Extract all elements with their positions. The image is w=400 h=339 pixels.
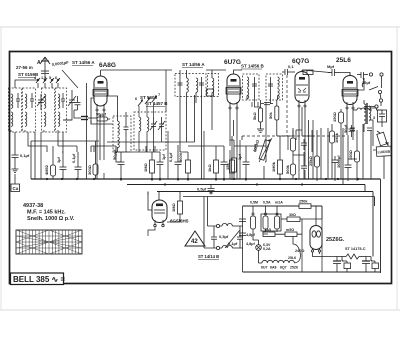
svg-text:240Ω: 240Ω (295, 249, 304, 253)
resistor small on osc feed (207, 89, 214, 96)
capacitor 1uf (screen) (243, 152, 250, 181)
svg-text:1MΩ: 1MΩ (171, 202, 176, 212)
wire terminals up to bus (204, 197, 208, 249)
ground under 0,1uf (12, 166, 19, 173)
resistor 0,5M (diode load) (278, 150, 283, 180)
svg-text:7: 7 (158, 93, 160, 97)
line filter choke bottom (220, 245, 240, 248)
wire 6G5 left leg (148, 192, 155, 237)
AVC dashed line (242, 135, 345, 137)
capacitor on bus3 0,5uf (208, 184, 215, 195)
capacitor 25L6 cathode bypass (345, 159, 352, 181)
padder coils (139, 117, 149, 131)
svg-text:6G5/6H5: 6G5/6H5 (170, 219, 189, 224)
wire 25Z6 plates to rail (316, 206, 322, 226)
cap small 10k upper (301, 139, 307, 150)
electrolytic cap E2 small box (342, 261, 351, 272)
wire Ca to cap (14, 174, 16, 184)
svg-text:6: 6 (55, 76, 57, 80)
wire volume top to IF (255, 102, 266, 152)
wires right mid region verticals (321, 124, 371, 185)
svg-text:0,1µf: 0,1µf (71, 153, 76, 163)
pilot lamp (256, 245, 262, 251)
svg-text:A: A (37, 60, 41, 66)
heater chain filament coil (259, 260, 295, 263)
resistor (6U7G screen) (232, 150, 237, 180)
svg-text:1µf: 1µf (56, 156, 61, 163)
transformer core (366, 103, 367, 124)
capacitor 0,1uf left (12, 152, 19, 166)
wire rectifier cathode output (313, 252, 337, 257)
ground below 5k (257, 126, 264, 133)
aerial coil shield box (dashed) L1 (9, 88, 22, 132)
screen bus wire y146 (188, 140, 246, 152)
resistor 250k (on top rail) (299, 200, 311, 209)
wire 6Q7G down legs (299, 107, 305, 162)
svg-text:Mµf: Mµf (327, 64, 335, 69)
wire AVC vertical (232, 136, 242, 140)
wire mid horizontals (63, 120, 116, 152)
junction dots on bus (46, 178, 359, 193)
resistor 25L6 grid leak (330, 124, 335, 179)
resistor m5 horizontal (285, 228, 297, 237)
antenna A (40, 57, 50, 73)
resistor 25L6 cathode 150 (355, 130, 360, 181)
capacitor 0,1uf (6U7G) (221, 152, 228, 181)
svg-text:25L6: 25L6 (288, 256, 296, 260)
wire caps top connections (337, 257, 371, 262)
tone capacitor box 0,2 (373, 110, 387, 122)
capacitor mains mid (237, 226, 243, 248)
svg-text:30Ω: 30Ω (289, 213, 296, 217)
tone coil (353, 108, 372, 110)
padder trimmer 1 (150, 117, 157, 134)
big curve wire to 25Z6 heater (293, 237, 300, 264)
svg-text:50k: 50k (268, 112, 273, 119)
wire 6U7G legs to bus (230, 140, 237, 179)
capacitor 4,8uf left rail lower (239, 233, 246, 235)
wire antenna diagonal to coil (62, 70, 78, 88)
wire mid-left horizontal (31, 95, 202, 179)
top B+ bus wire (101, 69, 173, 71)
wire terminals left (204, 226, 216, 248)
svg-text:6: 6 (135, 97, 137, 101)
svg-text:LUIDSB.: LUIDSB. (377, 150, 391, 155)
svg-text:1M0k: 1M0k (271, 161, 276, 172)
wire IF2 secondary down legs (255, 102, 281, 136)
trimmer on L4 (61, 93, 65, 108)
output transformer primary coil (364, 100, 366, 132)
grid cap 6Q7G (282, 69, 295, 75)
svg-text:1,2: 1,2 (41, 76, 46, 80)
wire 6Q7G legs to bus (299, 140, 305, 179)
wire 25L6 grid from cap (341, 73, 350, 76)
main bus wire 3 (157, 191, 373, 193)
bandspread coil shield box L2 (dashed) (23, 88, 36, 132)
capacitor 4,8uf left rail upper (239, 219, 246, 221)
RF coil shield box L3 (dashed) (42, 88, 55, 132)
selector resistor Rb (263, 206, 268, 232)
oscillator grid resistor (horizontal) (91, 117, 110, 121)
wire lamp (253, 234, 259, 264)
IF2 secondary coils (278, 77, 280, 99)
svg-text:ST 14175-C: ST 14175-C (345, 247, 366, 251)
svg-text:1000µf: 1000µf (336, 155, 341, 168)
speaker box LUIDSPR (376, 146, 391, 156)
IF1 primary coil (187, 78, 189, 92)
wire 6Q7G anode to top (301, 70, 303, 72)
wire screen line (178, 151, 188, 153)
main bus wire 4 (183, 196, 375, 198)
svg-text:m5Ω: m5Ω (286, 228, 294, 232)
svg-text:1µf: 1µf (237, 153, 242, 160)
wire long vertical x168 (167, 131, 169, 179)
svg-text:300Ω: 300Ω (87, 164, 92, 175)
svg-text:0,5A: 0,5A (263, 201, 271, 205)
svg-text:0,1: 0,1 (288, 64, 294, 69)
trimmer capacitor on L2 (30, 93, 34, 108)
coupling capacitor to 25L6 (328, 69, 341, 76)
svg-text:150Ω: 150Ω (348, 149, 353, 160)
resistor 15k (291, 128, 296, 164)
AVC dashed vertical (286, 75, 288, 136)
IF2 secondary capacitor (268, 77, 273, 96)
wire vertical x258 (257, 102, 259, 107)
wire IF2 bottoms (247, 96, 278, 103)
oscillator grid cap (78, 117, 91, 120)
phase reversal diagonal wire (225, 230, 240, 248)
oscillator coil windings (118, 121, 120, 148)
svg-text:ST 14/56 A: ST 14/56 A (182, 62, 205, 67)
svg-text:4,8µf: 4,8µf (246, 242, 255, 246)
svg-text:0,5µf: 0,5µf (197, 187, 207, 192)
svg-text:1MΩ: 1MΩ (143, 162, 148, 172)
wire osc switch feeds (139, 103, 154, 118)
IF1 secondary capacitor (199, 77, 204, 93)
svg-text:500V: 500V (178, 152, 183, 162)
tuning gang capacitor C2 (68, 90, 76, 110)
middle row: resistor R1 (51, 146, 56, 179)
svg-text:25L6: 25L6 (336, 57, 351, 64)
svg-text:0,1µf: 0,1µf (228, 241, 238, 246)
wire 6Q7G leg2 (304, 170, 306, 179)
coil L3 windings (44, 94, 46, 126)
wire antenna column long vertical (86, 83, 88, 141)
wire 25L6 cathode joins (348, 135, 357, 159)
wire tone section (381, 102, 382, 127)
wire L1 bottom to bus (11, 130, 58, 132)
rectifier tube 25Z6G (310, 226, 322, 253)
wire x240 vertical (239, 140, 241, 179)
svg-text:6A8: 6A8 (270, 266, 276, 270)
wire 6A8G anode to top bus (100, 70, 102, 76)
converter tube 6A8G (93, 76, 108, 111)
wire 6Q7G area links (280, 70, 312, 152)
main bus wire 2 (127, 184, 365, 186)
wire volume pot to bus (264, 140, 266, 179)
wire 6A8G cathode down (97, 111, 104, 148)
oscillator padder box (dashed) (134, 112, 166, 150)
svg-text:6Q7G: 6Q7G (292, 58, 309, 65)
decoupling resistor box on line (303, 70, 313, 75)
svg-text:50µµf: 50µµf (96, 113, 107, 117)
wire 6A8G leg2 (103, 173, 105, 179)
electrolytic cap E1 (333, 257, 344, 273)
horizontal wire osc to bus (116, 146, 160, 162)
wire selector bottom row (263, 219, 302, 234)
svg-text:0,2A: 0,2A (263, 247, 271, 251)
svg-text:6U7: 6U7 (261, 266, 267, 270)
wire switch feeds (38, 83, 58, 88)
wire 25L6 down legs (347, 99, 353, 140)
svg-text:ST 14/56 B: ST 14/56 B (241, 64, 265, 69)
resistor 300 ohm (93, 141, 98, 179)
tone switch S2 (369, 87, 383, 103)
svg-text:1µf: 1µf (161, 153, 166, 160)
wire mains to selector (240, 206, 243, 272)
Ca terminal box (11, 184, 20, 192)
capacitor 0,1uf mid (75, 152, 82, 179)
wire power top distribution (302, 206, 322, 272)
selector resistor Ra (251, 206, 256, 234)
svg-text:Snelh. 1000 Ω p.V.: Snelh. 1000 Ω p.V. (27, 216, 75, 222)
resistor 1M (6G5 grid) (178, 195, 183, 218)
surge resistor (zigzag) (336, 254, 366, 259)
IF1 primary capacitor (178, 77, 183, 93)
svg-text:6U7G: 6U7G (224, 59, 241, 66)
IF1 secondary coil (196, 78, 198, 92)
coil L2 windings (25, 94, 27, 126)
bottom power rail (243, 271, 381, 273)
terminal T1 (369, 73, 372, 76)
speaker field coil (diagonal zigzag) (377, 131, 388, 146)
wire 178 cap to bus (177, 145, 179, 152)
wire 330 to bus (329, 178, 331, 180)
wire 25L6 grid resistor up (329, 131, 331, 133)
output tube 25L6 (342, 76, 358, 110)
capacitor 50uf cathode bypass (349, 125, 355, 137)
svg-text:25Z6: 25Z6 (290, 266, 298, 270)
wire 6G5 connections (148, 195, 180, 222)
tuning indicator tube 6G5/6H5 (152, 200, 167, 227)
svg-text:1M5k: 1M5k (334, 132, 339, 143)
resistor 6Q7G plate load 25k (315, 130, 320, 181)
svg-text:150Ω: 150Ω (332, 111, 337, 122)
wire 25L6 anode to output cap (350, 73, 364, 91)
wire 6A8G cathode legs to bus (97, 146, 104, 179)
border frame (decorative) (10, 52, 392, 284)
filter capacitor 0,5uf (211, 226, 217, 248)
resistor 150 ohm cathode (339, 109, 344, 179)
IF transformer 2 secondary shield (dashed) (266, 74, 283, 100)
padder trimmer 2 (158, 117, 165, 134)
capacitor 8uf (332, 156, 339, 181)
output transformer secondary coil (369, 106, 371, 120)
wire top caps right area (350, 128, 372, 131)
resistor mid2 (186, 152, 191, 181)
oscillator trimmer cap (124, 120, 129, 137)
svg-text:4937-38: 4937-38 (23, 203, 43, 209)
grid capacitor to 6A8G (74, 96, 81, 110)
terminal circle top (mains) (216, 224, 219, 227)
wire gang cap C2 down (63, 110, 72, 120)
dial cord stringing table (16, 230, 82, 254)
wire x288 vertical (287, 136, 289, 150)
wire osc to tube (107, 96, 126, 121)
padder coil (212, 70, 214, 130)
resistor 500k (291, 164, 296, 177)
terminal T2 (380, 73, 383, 76)
wire 6U7G down legs (230, 109, 237, 152)
svg-text:50µf: 50µf (343, 124, 348, 133)
svg-text:27-56 m: 27-56 m (16, 65, 33, 70)
capacitor C 1uf (60, 152, 67, 179)
svg-text:4M52: 4M52 (44, 164, 49, 175)
wire coil boxes common down (40, 132, 42, 179)
phase triangle 42 (185, 231, 205, 246)
svg-text:BELL 385 ∿ =: BELL 385 ∿ = (13, 275, 65, 284)
IF2 primary capacitor (252, 77, 257, 96)
wire osc plate feed vertical (165, 70, 167, 112)
svg-text:6Q7: 6Q7 (280, 266, 287, 270)
svg-text:m2A: m2A (275, 201, 283, 205)
wire 6A8G osc grid (74, 98, 113, 124)
wire 293-304 links (293, 120, 313, 179)
wire top line 6Q7G to coupling cap (302, 70, 330, 73)
IF transformer 2 primary shield (dashed) (243, 74, 260, 100)
resistor 1M ohm mid (150, 152, 155, 181)
svg-text:0,5M: 0,5M (250, 201, 258, 205)
capacitor 10uf (157, 152, 164, 181)
oscillator band switch contacts (135, 93, 160, 106)
resistor 50k below IF2 (275, 100, 279, 136)
svg-text:3: 3 (373, 116, 375, 120)
svg-text:4,8µf: 4,8µf (246, 233, 255, 237)
svg-text:6A8G: 6A8G (99, 62, 116, 69)
coil L4 windings (58, 94, 60, 126)
wire T2 down (381, 76, 383, 88)
resistor 6k5 horizontal (263, 228, 275, 237)
IF amplifier tube 6U7G (226, 74, 241, 109)
selector resistor Rc (275, 206, 280, 232)
title block BELL 385 (11, 273, 66, 285)
terminal circle bottom (mains) (216, 246, 219, 249)
wire antenna to switch (44, 74, 46, 79)
wire IF1 bottoms (180, 92, 202, 152)
IF2 primary coils (247, 77, 249, 99)
svg-text:Ca: Ca (13, 186, 19, 191)
wire diode load (280, 130, 296, 160)
svg-text:6k5: 6k5 (265, 228, 271, 232)
wire long vertical x204 (203, 131, 205, 179)
wire 6U7G anode up (234, 70, 243, 74)
svg-text:0,5µf: 0,5µf (219, 234, 229, 239)
capacitor between IF2 legs (261, 103, 273, 105)
svg-text:ST 1457 B: ST 1457 B (146, 101, 168, 106)
svg-text:25Z6G.: 25Z6G. (326, 237, 345, 243)
vertical feed wires from tube row down to buses (100, 96, 108, 160)
svg-text:0,1µf: 0,1µf (20, 153, 30, 158)
svg-text:25kΩ: 25kΩ (308, 155, 313, 166)
trimmer capacitor on L1 (16, 93, 20, 108)
capacitor 50uuf osc (118, 152, 125, 181)
svg-text:42: 42 (191, 239, 198, 245)
svg-text:ST 14/56 A: ST 14/56 A (72, 60, 95, 65)
resistor 1M (AVC) (230, 140, 235, 180)
wire osc box legs (118, 131, 162, 152)
padder coil shield box (dashed) (208, 74, 219, 97)
terminal circle mid (364, 105, 382, 110)
wire left column to bottom (14, 132, 16, 152)
tuning gang capacitor C1 (variable, arrow) (37, 94, 45, 110)
svg-text:250k: 250k (299, 200, 308, 204)
wire x252 vertical (251, 102, 253, 107)
svg-text:500k: 500k (285, 164, 290, 174)
bus wrap wires right side (365, 179, 381, 273)
svg-text:0,1µf: 0,1µf (168, 152, 173, 162)
IF transformer 1 shield (dashed) (175, 74, 206, 97)
output coupling capacitor top right (357, 72, 368, 78)
wire horizontal y146 extension (246, 145, 266, 147)
svg-text:M.F. = 145 kHz.: M.F. = 145 kHz. (27, 210, 66, 216)
pickup squiggle (362, 78, 364, 87)
detector tube 6Q7G (295, 72, 309, 108)
wire speaker connections (369, 108, 388, 179)
capacitor 0,1uf 500V (175, 152, 182, 181)
power section top rail (243, 205, 323, 207)
svg-text:5: 5 (49, 76, 51, 80)
volume potentiometer 500k (diagonal) (259, 138, 272, 162)
resistor 5k below IF2 (259, 100, 263, 126)
antenna coupling capacitor (41, 71, 49, 74)
resistor 1M ohm (6U7G cathode) (214, 152, 219, 181)
oscillator coil shield box left (dashed) (113, 116, 131, 152)
resistor 30 ohm horizontal (281, 213, 322, 222)
svg-text:ST 14/14 B: ST 14/14 B (198, 254, 219, 259)
electrolytic cap E4 small box (371, 261, 379, 272)
coil L4 shield box (dashed) (56, 88, 67, 132)
main bus wire 1 (31, 178, 381, 180)
svg-text:1kΩ: 1kΩ (207, 164, 212, 172)
voltage selector inner box (261, 214, 281, 231)
line filter choke top (220, 223, 240, 226)
horizontal link wires mid-left (15, 80, 100, 179)
band switch contacts (34, 76, 60, 83)
svg-text:5kΩ: 5kΩ (252, 112, 257, 120)
electrolytic cap E3 (362, 257, 373, 273)
wire 6G5 top to bus (148, 192, 180, 196)
wire IF1 to 6U7G grid bus (180, 70, 226, 78)
wire verticals top right of power (302, 120, 313, 136)
aerial coil L1 windings (11, 94, 13, 126)
capacitor 10k bypass (301, 157, 307, 176)
